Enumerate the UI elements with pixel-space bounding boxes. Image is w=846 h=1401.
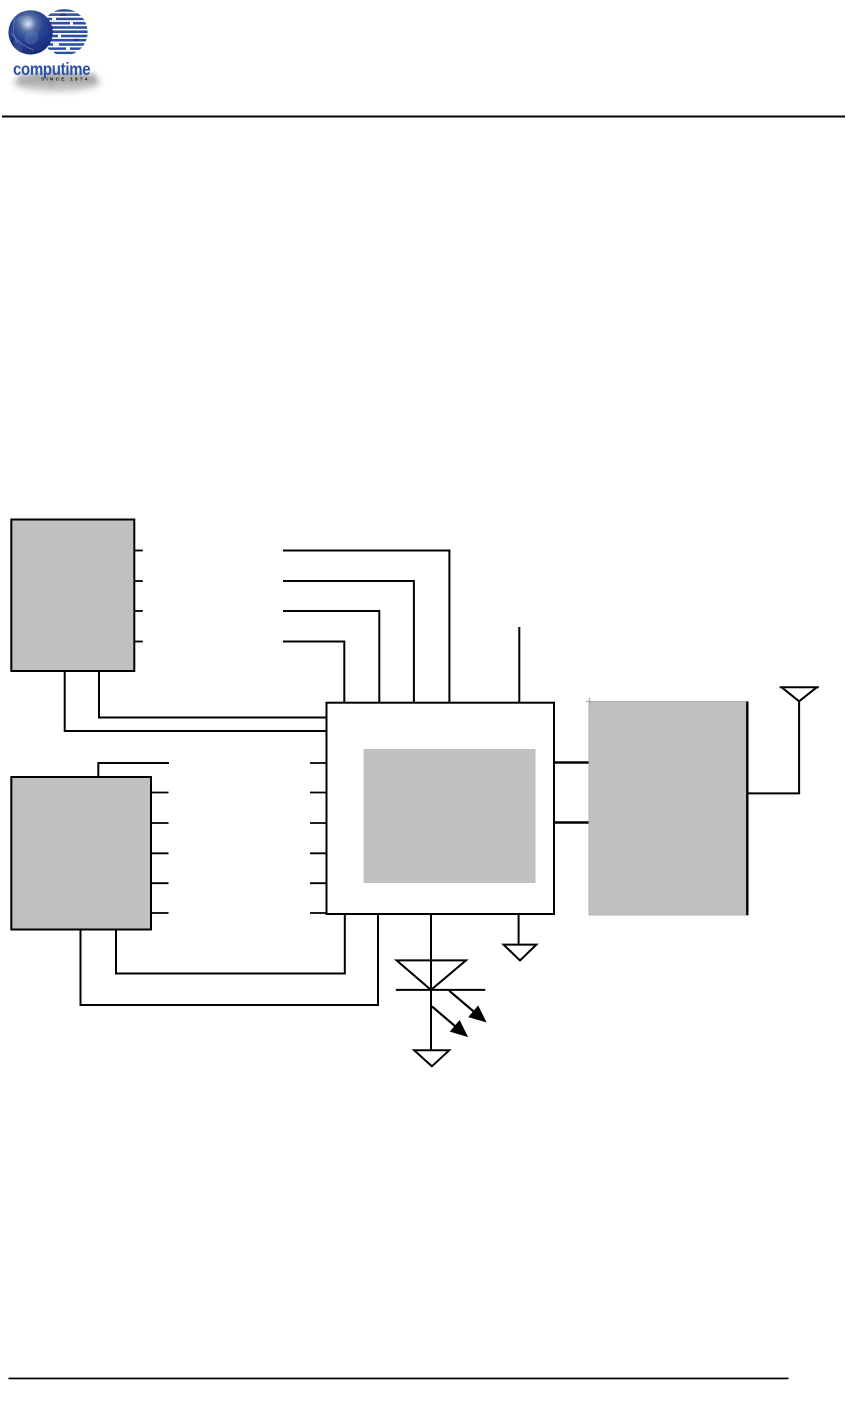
wire block C to block D (upper) <box>554 761 589 763</box>
block A (upper-left gray box) <box>11 520 134 672</box>
footer rule <box>9 1378 789 1380</box>
wire block A to block C (lower) <box>65 671 327 731</box>
wire block B top <box>98 763 169 777</box>
block A pin stub 2 <box>134 580 143 582</box>
block B pin stub 5 <box>151 912 169 914</box>
block C inner gray panel <box>364 749 536 883</box>
block C left pin stub 5 <box>310 882 327 884</box>
antenna ANT1 <box>780 687 819 793</box>
wire LED cathode to ground <box>430 990 432 1050</box>
block D corner tick <box>586 698 593 706</box>
block B pin stub 1 <box>151 792 169 794</box>
block D right edge line <box>746 702 748 916</box>
block B pin stub 2 <box>151 822 169 824</box>
wire block A to block C (upper) <box>99 671 327 718</box>
ground (right of LED) <box>504 945 537 961</box>
block A pin stub 3 <box>134 610 143 612</box>
block B pin stub 4 <box>151 882 169 884</box>
wire bus 4 <box>283 642 344 703</box>
block C left pin stub 4 <box>310 852 327 854</box>
block C (central white box) <box>327 703 555 914</box>
block A pin stub 4 <box>134 641 143 643</box>
wire bus 1 (top) <box>283 551 449 703</box>
wire block C bottom to block B (outer loop) <box>81 914 379 1005</box>
block C left pin stub 6 <box>310 912 327 914</box>
block D (right gray box) <box>589 702 747 916</box>
wire block C to block D (lower) <box>554 821 589 823</box>
block B pin stub 3 <box>151 852 169 854</box>
LED D1 <box>396 960 486 990</box>
block B (lower-left gray box) <box>11 777 151 930</box>
LED light arrow 2 <box>432 1006 466 1035</box>
block C left pin stub 1 <box>310 762 327 764</box>
LED light arrow 1 <box>449 991 484 1021</box>
svg-text:computime: computime <box>13 60 91 79</box>
wire bus 2 <box>283 581 414 703</box>
block A pin stub 1 <box>134 550 143 552</box>
wire stub (top of block C) <box>518 627 520 703</box>
svg-text:SINCE 1974: SINCE 1974 <box>41 77 90 83</box>
wire bus 3 <box>283 611 379 703</box>
block C left pin stub 2 <box>310 792 327 794</box>
wire block D to antenna <box>747 792 800 794</box>
logo: Computime (globe + striped ball + wordmark + shadow) <box>8 9 101 91</box>
wire block C to ground (right) <box>518 914 520 945</box>
header rule <box>2 116 845 118</box>
wire block C to LED anode <box>430 914 432 960</box>
wire block C bottom to block B (inner loop) <box>116 914 345 974</box>
block C left pin stub 3 <box>310 822 327 824</box>
ground (below LED) <box>414 1050 449 1066</box>
